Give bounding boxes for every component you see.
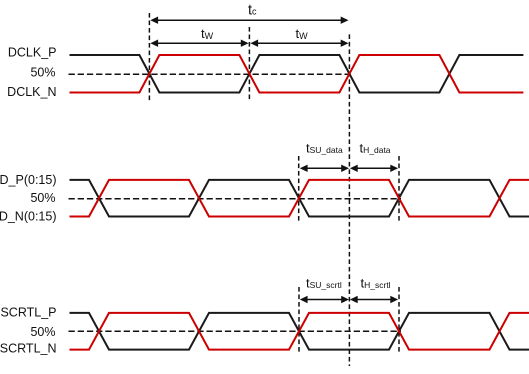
svg-text:tSU_scrtl: tSU_scrtl [306, 275, 342, 290]
node clock edge 2 dashed vertical [248, 27, 250, 102]
svg-text:D_P(0:15): D_P(0:15) [0, 173, 57, 187]
dimension tSU_data arrow [300, 165, 349, 172]
svg-text:tH_data: tH_data [360, 140, 391, 155]
svg-text:tc: tc [248, 2, 257, 18]
svg-text:tW: tW [201, 26, 214, 41]
svg-text:tH_scrtl: tH_scrtl [361, 275, 391, 290]
wire D_P trace (black) [70, 180, 529, 217]
wire D_N trace (red) [70, 180, 529, 217]
node 50% level dashed line (scrtl) [69, 330, 402, 332]
node data valid start dashed vertical [298, 156, 300, 221]
dimension tSU_scrtl arrow [300, 296, 349, 303]
svg-text:tSU_data: tSU_data [306, 140, 343, 155]
dimension tW arrow (left half period) [150, 40, 248, 47]
node sampling edge long dashed vertical [348, 34, 350, 366]
dimension tW arrow (right half period) [250, 40, 348, 47]
dimension tc arrow [150, 17, 348, 24]
wire DCLK_P trace (black) [70, 55, 524, 93]
node scrtl valid start dashed vertical [298, 287, 300, 354]
node data valid end dashed vertical [398, 156, 400, 221]
node 50% level dashed line (data) [69, 198, 402, 200]
node scrtl valid end dashed vertical [398, 287, 400, 354]
svg-text:50%: 50% [30, 66, 55, 80]
svg-text:tW: tW [296, 26, 309, 41]
svg-text:SCRTL_P: SCRTL_P [0, 306, 56, 320]
svg-text:DCLK_P: DCLK_P [8, 46, 57, 60]
wire DCLK_N trace (red) [70, 55, 524, 93]
svg-text:SCRTL_N: SCRTL_N [0, 342, 57, 356]
wire SCRTL_N trace (red) [70, 313, 529, 350]
wire SCRTL_P trace (black) [70, 313, 529, 350]
svg-text:D_N(0:15): D_N(0:15) [0, 210, 57, 224]
node clock edge 1 dashed vertical [148, 13, 150, 102]
node 50% level dashed line (clock) [69, 73, 353, 75]
svg-text:50%: 50% [30, 191, 55, 205]
svg-text:50%: 50% [30, 325, 55, 339]
svg-text:DCLK_N: DCLK_N [7, 85, 56, 99]
dimension tH_data arrow [350, 165, 398, 172]
dimension tH_scrtl arrow [350, 296, 398, 303]
